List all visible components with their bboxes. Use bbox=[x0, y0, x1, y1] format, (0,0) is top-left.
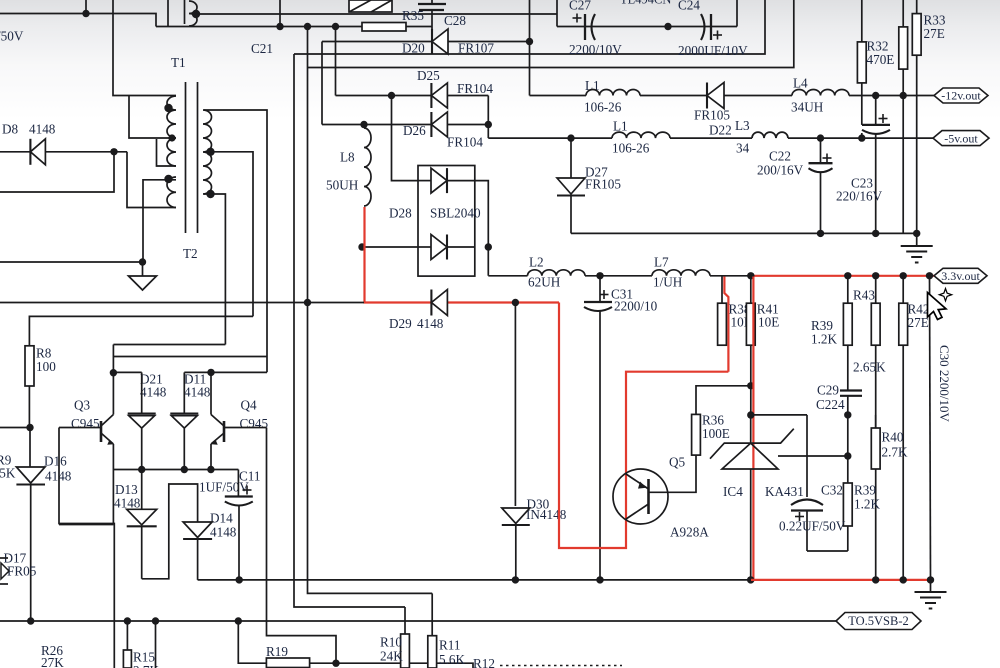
capacitor C22 bbox=[809, 138, 833, 233]
diode D20 bbox=[432, 29, 448, 54]
junction -12v a bbox=[872, 92, 879, 99]
inductor L1 second bbox=[612, 132, 670, 138]
junction ground node bbox=[139, 258, 146, 265]
wire em rail left end bbox=[59, 470, 113, 525]
svg-text:R10: R10 bbox=[380, 635, 402, 650]
junction C27 box bbox=[664, 23, 671, 30]
junction y303 bbox=[304, 299, 311, 306]
label C21 bbox=[251, 41, 273, 56]
junction rail c bbox=[900, 272, 907, 279]
junction y580 x903 bbox=[900, 576, 907, 583]
wire x488 tie bbox=[487, 96, 489, 139]
svg-text:L8: L8 bbox=[340, 150, 355, 165]
diode D25 bbox=[431, 83, 447, 108]
wire R19 out right bbox=[336, 663, 473, 668]
svg-text:24K: 24K bbox=[380, 649, 403, 664]
wire emitter rail bbox=[113, 469, 238, 471]
inductor L4 bbox=[792, 90, 849, 96]
label C31 bbox=[611, 287, 633, 302]
svg-text:C30 2200/10V: C30 2200/10V bbox=[937, 345, 952, 423]
wire winding stub a bbox=[167, 0, 169, 27]
resistor 2.65K column bbox=[871, 276, 880, 428]
junction SBL mid out bbox=[485, 243, 492, 250]
label R36 bbox=[702, 413, 730, 442]
label L7 bbox=[654, 255, 669, 270]
transistor Q5 circle bbox=[613, 469, 668, 524]
phase dot T2 primary bbox=[164, 175, 172, 183]
capacitor C29 bbox=[840, 391, 862, 396]
wire y415 link bbox=[751, 414, 807, 416]
wire base rail left bbox=[0, 427, 30, 429]
svg-text:4148: 4148 bbox=[417, 316, 444, 331]
label C23 bbox=[851, 176, 873, 191]
junction y580 ka431 bbox=[747, 576, 754, 583]
inductor L1 first bbox=[586, 90, 640, 96]
label C29 bbox=[816, 383, 845, 413]
svg-text:IC4: IC4 bbox=[723, 484, 743, 499]
svg-text:FR05: FR05 bbox=[7, 564, 37, 579]
wire x750 link bbox=[750, 386, 752, 415]
wire Q3 base loop bbox=[59, 428, 114, 668]
red column main bbox=[752, 277, 754, 580]
wire D8 node down bbox=[0, 152, 114, 192]
svg-text:D14: D14 bbox=[210, 511, 233, 526]
resistor R41 bbox=[746, 276, 755, 386]
svg-text:L2: L2 bbox=[529, 255, 544, 270]
junction em rail c bbox=[207, 466, 214, 473]
wire D16 column bbox=[29, 428, 31, 468]
label C11 bbox=[239, 469, 261, 484]
wire D20 out down bbox=[529, 0, 531, 96]
junction rail R43 bbox=[844, 272, 851, 279]
svg-text:Q3: Q3 bbox=[74, 398, 91, 413]
junction em rail b bbox=[181, 466, 188, 473]
wire R36 top bbox=[696, 386, 751, 415]
junction y27 a bbox=[276, 23, 283, 30]
svg-text:-5v.out: -5v.out bbox=[944, 131, 978, 145]
diode D14 bbox=[183, 522, 212, 580]
svg-text:1UF/50V: 1UF/50V bbox=[199, 480, 249, 495]
svg-text:R43: R43 bbox=[853, 288, 875, 303]
svg-text:27E: 27E bbox=[908, 315, 929, 330]
wire vert x322 bbox=[321, 42, 323, 125]
svg-text:C21: C21 bbox=[251, 41, 273, 56]
svg-text:4148: 4148 bbox=[184, 385, 211, 400]
junction rail R41 bbox=[747, 272, 754, 279]
label D22 bbox=[709, 123, 732, 138]
label FR105 series bbox=[694, 108, 730, 123]
junction -12v b bbox=[900, 92, 907, 99]
capacitor at -12v rail bbox=[862, 96, 890, 234]
wire R8 feed bbox=[29, 316, 253, 345]
wire D27 bottom row bbox=[571, 232, 917, 234]
resistor R19 bbox=[266, 658, 309, 668]
label R15 bbox=[133, 650, 159, 668]
phase dot secondary mid bbox=[206, 148, 214, 156]
label R26 bbox=[41, 643, 64, 668]
label A928A bbox=[670, 525, 709, 540]
junction y580 r40 bbox=[872, 576, 879, 583]
label 200/16V bbox=[757, 163, 804, 178]
wire D16 down bbox=[30, 485, 32, 622]
junction y580 gnd bbox=[927, 576, 934, 583]
resistor column x903 top bbox=[899, 0, 908, 233]
diode D17 partial bbox=[0, 558, 9, 584]
label C27 bbox=[569, 0, 591, 13]
svg-text:34: 34 bbox=[736, 141, 750, 156]
wire vert x294 bbox=[294, 54, 405, 607]
label C32 bbox=[821, 483, 843, 498]
label 62UH bbox=[528, 275, 561, 290]
label D25 bbox=[417, 68, 440, 83]
capacitor C11 bbox=[225, 470, 253, 580]
label C28 bbox=[444, 13, 466, 28]
flag 3.3v.out bbox=[934, 268, 987, 283]
junction D25-D26 tie bbox=[485, 121, 492, 128]
capacitor C24 bbox=[701, 14, 711, 40]
label TL494 fragment bbox=[620, 0, 671, 7]
label 220/16V bbox=[836, 189, 883, 204]
wire x113 seg bbox=[112, 345, 114, 373]
label FR105 shunt bbox=[585, 177, 621, 192]
label C945 right bbox=[240, 416, 269, 431]
label 2.65K bbox=[853, 360, 886, 375]
label Q5 bbox=[669, 455, 686, 470]
resistor R32 bbox=[857, 0, 866, 125]
resistor R11 bbox=[428, 593, 437, 668]
transformer T2 primary winding bbox=[167, 177, 176, 208]
label D21 bbox=[140, 372, 167, 400]
diode D26 bbox=[431, 112, 447, 137]
inductor L8 bbox=[364, 125, 371, 207]
svg-text:R39: R39 bbox=[854, 483, 876, 498]
svg-text:1.2K: 1.2K bbox=[854, 497, 880, 512]
svg-text:4148: 4148 bbox=[114, 496, 141, 511]
label L1 first bbox=[585, 78, 600, 93]
wire C29 bottom bbox=[847, 396, 849, 456]
svg-text:TO.5VSB-2: TO.5VSB-2 bbox=[848, 614, 909, 628]
flag TO.5VSB-2 bbox=[836, 613, 921, 630]
wire D26 row bbox=[322, 124, 488, 126]
svg-text:D25: D25 bbox=[417, 68, 440, 83]
wire secondary mid tap bbox=[204, 152, 253, 317]
label R35 bbox=[402, 8, 424, 23]
svg-text:A928A: A928A bbox=[670, 525, 709, 540]
wire y303 black left bbox=[0, 302, 364, 304]
junction y27 b bbox=[304, 23, 311, 30]
mouse cursor bbox=[928, 289, 952, 320]
label D20 bbox=[402, 41, 425, 56]
svg-text:C24: C24 bbox=[678, 0, 700, 13]
label C30 rotated bbox=[937, 345, 952, 423]
plus C27 bbox=[573, 14, 582, 23]
junction y372 q4 bbox=[207, 369, 214, 376]
svg-text:FR105: FR105 bbox=[694, 108, 730, 123]
label L3 bbox=[735, 118, 750, 133]
svg-text:Q4: Q4 bbox=[241, 398, 258, 413]
wire D8 row bbox=[0, 151, 127, 153]
wire R19 right bbox=[310, 662, 336, 664]
transformer core bbox=[186, 82, 198, 233]
diode D21 bbox=[128, 372, 156, 469]
svg-text:FR105: FR105 bbox=[585, 177, 621, 192]
label D29 bbox=[389, 316, 444, 331]
wire vert x307 bbox=[308, 27, 433, 594]
wire y372 left bbox=[113, 371, 141, 373]
wire Q4 collector bbox=[210, 372, 212, 414]
transistor Q5 bar bbox=[647, 479, 650, 514]
wire C27 box right bbox=[736, 0, 738, 27]
resistor R33 bbox=[912, 0, 921, 233]
label D16 bbox=[44, 454, 72, 484]
svg-text:200/16V: 200/16V bbox=[757, 163, 804, 178]
wire vert x280 bbox=[279, 0, 281, 27]
svg-text:5.6K: 5.6K bbox=[439, 652, 465, 667]
resistor R40 bbox=[871, 415, 880, 580]
junction y580 c11 bbox=[236, 576, 243, 583]
wire KA431 ref bbox=[778, 455, 848, 457]
flag -5v.out bbox=[933, 131, 989, 146]
svg-text:50UH: 50UH bbox=[326, 178, 359, 193]
wire T2 primary top tap bbox=[143, 180, 176, 262]
label D13 bbox=[114, 482, 141, 511]
diode D16 bbox=[16, 467, 45, 485]
transistor Q5 emitter bbox=[626, 474, 649, 489]
junction em rail a bbox=[138, 466, 145, 473]
ic KA431 bbox=[710, 429, 794, 469]
label 50UH bbox=[326, 178, 359, 193]
wire y580 left bbox=[198, 579, 751, 581]
label /50V fragment bbox=[0, 29, 24, 44]
wire R19 feed bbox=[238, 621, 266, 663]
ground symbol earth (mid right) bbox=[901, 246, 933, 263]
wire L1a row bbox=[530, 95, 935, 97]
svg-text:2.7K: 2.7K bbox=[882, 445, 908, 460]
transistor Q5 collector bbox=[626, 504, 649, 519]
wire vert x335 bbox=[335, 27, 337, 96]
box SBL2040 bbox=[418, 166, 475, 277]
red y580 bbox=[751, 579, 931, 581]
svg-text:L7: L7 bbox=[654, 255, 669, 270]
wire Q3 collector bbox=[112, 373, 114, 415]
svg-text:100E: 100E bbox=[702, 426, 730, 441]
junction T1 primary mid tap bbox=[168, 134, 175, 141]
wire gnd stub bbox=[916, 233, 918, 246]
capacitor C31 bbox=[584, 276, 612, 580]
transistor Q3 bbox=[101, 415, 114, 445]
transformer T1 top winding bbox=[189, 1, 197, 26]
wire secondary top tap bbox=[204, 110, 267, 372]
svg-text:4148: 4148 bbox=[29, 122, 56, 137]
wire gnd stub lower bbox=[930, 580, 932, 592]
wire top-left horizontal rail bbox=[0, 14, 156, 27]
label D26 bbox=[403, 123, 426, 138]
svg-text:SBL2040: SBL2040 bbox=[430, 206, 481, 221]
capacitor C32 bbox=[791, 415, 823, 551]
svg-text:100: 100 bbox=[36, 359, 56, 374]
label D28 bbox=[389, 206, 412, 221]
svg-text:.5K: .5K bbox=[0, 466, 16, 481]
diode D27 bbox=[557, 138, 585, 233]
svg-text:1/UH: 1/UH bbox=[653, 275, 683, 290]
junction ref node bbox=[844, 452, 851, 459]
wire D20 left bbox=[322, 41, 432, 43]
wire Q4 base bbox=[224, 427, 267, 429]
junction bottom row gnd bbox=[913, 230, 920, 237]
junction bottom row cap bbox=[872, 230, 879, 237]
junction R19 out bbox=[332, 660, 339, 667]
diode D30 bbox=[502, 508, 530, 580]
wire -5v row bbox=[488, 137, 933, 139]
wire 3.3 rail bbox=[488, 275, 751, 277]
diode D13 bbox=[127, 470, 157, 579]
red trace L8 to D29 row bbox=[365, 207, 560, 303]
diode SBL top bbox=[418, 168, 475, 193]
label FR104 upper bbox=[457, 81, 493, 96]
label R39 upper bbox=[811, 318, 837, 347]
wire C32-R39 bottom bbox=[807, 550, 848, 552]
phase dot T1 primary bbox=[164, 104, 172, 112]
svg-text:L1: L1 bbox=[613, 119, 628, 134]
wire y27 bus bbox=[156, 26, 432, 28]
transformer secondary winding bbox=[203, 110, 212, 194]
svg-text:27E: 27E bbox=[924, 26, 945, 41]
transformer T1 primary winding bbox=[167, 96, 176, 166]
svg-text:34UH: 34UH bbox=[791, 100, 824, 115]
svg-text:IN4148: IN4148 bbox=[526, 507, 567, 522]
label R39 lower bbox=[854, 483, 880, 512]
resistor R10 bbox=[401, 607, 410, 668]
label 106-26 second bbox=[612, 141, 650, 156]
junction -5v C22 bbox=[817, 134, 824, 141]
transistor Q4 bbox=[211, 415, 224, 445]
svg-text:D22: D22 bbox=[709, 123, 732, 138]
resistor R42 column bbox=[899, 276, 908, 580]
junction -5v cap bbox=[858, 134, 865, 141]
label D27 bbox=[585, 165, 608, 180]
node on top rail bbox=[82, 10, 89, 17]
svg-text:C224: C224 bbox=[816, 397, 845, 412]
junction D25 row bbox=[388, 92, 395, 99]
ground symbol triangle bbox=[129, 276, 157, 290]
plus C24 bbox=[713, 31, 722, 40]
wire D25 row bbox=[336, 95, 489, 97]
dotted page mark bbox=[500, 665, 622, 667]
svg-text:T1: T1 bbox=[171, 55, 186, 70]
wire bottom rail bbox=[0, 620, 836, 622]
junction brail b bbox=[124, 617, 131, 624]
svg-text:L3: L3 bbox=[735, 118, 750, 133]
wire T1 bottom tap bbox=[157, 139, 177, 166]
svg-text:R19: R19 bbox=[266, 644, 288, 659]
label C945 left bbox=[71, 416, 100, 431]
label 1/UH bbox=[653, 275, 683, 290]
junction bottom row c22 bbox=[817, 230, 824, 237]
wire y344 link bbox=[113, 344, 225, 346]
svg-text:C945: C945 bbox=[71, 416, 100, 431]
svg-text:FR104: FR104 bbox=[447, 135, 483, 150]
wire y372 right bbox=[184, 371, 267, 373]
svg-text:D29: D29 bbox=[389, 316, 412, 331]
label 2000UF/10V bbox=[678, 43, 748, 58]
junction c29 node bbox=[844, 411, 851, 418]
wire C27 box left bbox=[556, 0, 558, 27]
label D14 bbox=[210, 511, 237, 540]
wire x391 down bbox=[392, 96, 419, 181]
inductor L3 bbox=[752, 132, 788, 138]
svg-text:C28: C28 bbox=[444, 13, 466, 28]
wire C30 column bbox=[930, 276, 931, 580]
label Q4 bbox=[241, 398, 258, 413]
svg-text:D16: D16 bbox=[44, 454, 67, 469]
label 2200/10V bbox=[569, 42, 622, 57]
phase dot secondary bottom bbox=[206, 190, 214, 198]
label D8 bbox=[2, 122, 56, 137]
junction brail a bbox=[27, 617, 34, 624]
svg-text:Q5: Q5 bbox=[669, 455, 686, 470]
wire winding stub b bbox=[184, 0, 186, 24]
junction R36 node bbox=[747, 382, 754, 389]
flag -12v.out bbox=[934, 88, 988, 103]
svg-text:0.22UF/50V: 0.22UF/50V bbox=[779, 519, 846, 534]
label 1UF/50V bbox=[199, 480, 249, 495]
label R12 bbox=[473, 656, 495, 668]
wire Q4 base column bbox=[267, 428, 337, 664]
capacitor C27 bbox=[585, 14, 595, 40]
label R43 bbox=[853, 288, 875, 303]
junction D8 node bbox=[110, 148, 117, 155]
resistor R43 bbox=[843, 276, 852, 390]
svg-text:C22: C22 bbox=[769, 149, 791, 164]
svg-text:-12v.out: -12v.out bbox=[941, 89, 981, 103]
svg-text:4148: 4148 bbox=[210, 525, 237, 540]
junction -5v D27 bbox=[567, 134, 574, 141]
svg-text:106-26: 106-26 bbox=[612, 141, 650, 156]
red trace R38 jog bbox=[724, 277, 728, 372]
wire Q3 emitter bbox=[112, 444, 114, 470]
svg-text:R40: R40 bbox=[882, 430, 904, 445]
wire y54 bus bbox=[294, 0, 765, 54]
wire y356 link bbox=[113, 356, 267, 358]
svg-text:10E: 10E bbox=[758, 315, 779, 330]
junction y27 c bbox=[332, 23, 339, 30]
junction rail C31 bbox=[596, 272, 603, 279]
label L1 second bbox=[613, 119, 628, 134]
svg-text:D8: D8 bbox=[2, 122, 19, 137]
resistor R8 bbox=[25, 346, 34, 386]
label 2200/10 bbox=[614, 299, 658, 314]
diode SBL mid bbox=[418, 235, 475, 260]
svg-text:C945: C945 bbox=[240, 416, 269, 431]
diode D8 bbox=[30, 139, 45, 165]
resistor R15 bbox=[123, 621, 131, 668]
label R9 bbox=[0, 453, 16, 481]
label D17 bbox=[4, 551, 37, 579]
resistor R39 lower bbox=[843, 456, 852, 551]
label R33 bbox=[924, 13, 946, 42]
svg-text:KA431: KA431 bbox=[765, 484, 804, 499]
svg-text:C32: C32 bbox=[821, 483, 843, 498]
junction brail d bbox=[235, 617, 242, 624]
label R38 bbox=[729, 302, 752, 330]
label R40 bbox=[882, 430, 908, 460]
label 34 bbox=[736, 141, 750, 156]
label L2 bbox=[529, 255, 544, 270]
svg-text:2000UF/10V: 2000UF/10V bbox=[678, 43, 748, 58]
wire D13 to D14 link bbox=[142, 484, 198, 579]
svg-text:D28: D28 bbox=[389, 206, 412, 221]
svg-text:3.3v.out: 3.3v.out bbox=[941, 269, 980, 283]
